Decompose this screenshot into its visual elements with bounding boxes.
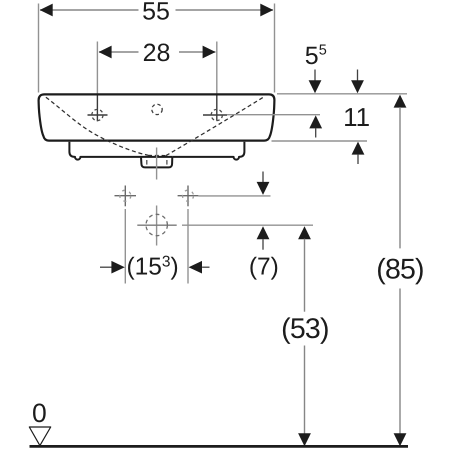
dim 11 lower arrow	[352, 142, 365, 164]
dim 5.5 upper arrow	[309, 70, 322, 94]
dim 11 upper arrow	[351, 70, 364, 94]
extension line of dim 7 bottom	[182, 224, 313, 226]
extension line of basin bottom to right	[272, 140, 368, 142]
centerline through drain	[156, 148, 158, 180]
svg-text:55: 55	[142, 0, 170, 26]
svg-text:11: 11	[343, 102, 370, 132]
trap dashed circle	[146, 214, 167, 235]
datum triangle	[29, 427, 50, 446]
dimension line 28	[99, 46, 216, 59]
dashed bowl bottom across drain	[148, 154, 166, 156]
extension line left of dim 28 / left tap hole axis	[96, 42, 98, 95]
svg-text:(153): (153)	[127, 253, 179, 280]
dashed bowl interior, right branch	[166, 96, 265, 155]
svg-text:(85): (85)	[376, 253, 423, 285]
apron right foot	[172, 142, 244, 160]
left tap hole cross	[88, 114, 108, 116]
drain box	[141, 157, 172, 168]
overflow circle	[152, 104, 162, 114]
dimension line 55	[40, 4, 274, 17]
svg-text:(7): (7)	[249, 254, 279, 281]
extension line right of dim 55	[274, 4, 276, 93]
right tap hole cross / tap axis extension line	[203, 114, 227, 116]
extension line left of dim 55	[38, 4, 40, 93]
extension line left of dim 15.3	[124, 209, 126, 284]
left fixing hole cross	[115, 186, 137, 207]
left tap hole dashed circle	[92, 109, 103, 120]
svg-text:(53): (53)	[281, 313, 328, 345]
drain box inner dashes	[146, 160, 148, 165]
right tap hole dashed circle	[211, 109, 222, 120]
right fixing hole cross + extension line of dim 7 top	[178, 186, 271, 207]
svg-text:0: 0	[32, 398, 47, 428]
apron line across drain box	[142, 156, 172, 158]
basin outer rim outline	[39, 94, 275, 140]
dim 15.3 left arrow	[100, 261, 125, 274]
svg-text:28: 28	[143, 39, 171, 67]
dim 7 lower arrow	[257, 226, 270, 250]
dashed bowl interior, left branch	[46, 97, 148, 155]
extension line of rim top to right	[277, 93, 407, 95]
dim 7 upper arrow	[257, 172, 270, 195]
floor line	[30, 445, 409, 448]
dim 53 vertical line with arrows	[298, 226, 311, 446]
dim 5.5 lower arrow	[309, 115, 322, 137]
dim 85 vertical line with arrows	[394, 95, 407, 447]
extension line right of dim 15.3	[187, 209, 189, 284]
dim 15.3 right arrow	[189, 261, 210, 274]
centerline through trap cross	[156, 206, 158, 246]
trap connection cross	[137, 224, 176, 226]
extension line right of dim 28 / right tap hole axis	[216, 42, 218, 95]
apron left foot	[69, 142, 142, 160]
